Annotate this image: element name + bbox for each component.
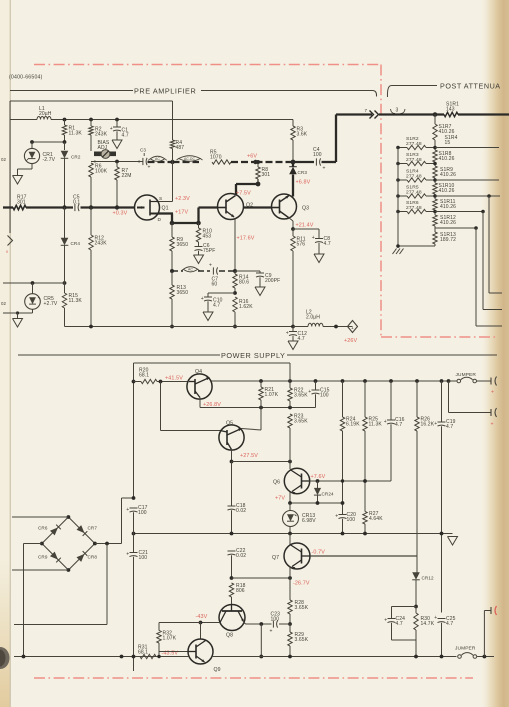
transistor Q7 mirrored	[289, 534, 291, 545]
ground below C12	[288, 341, 298, 350]
diode CR6	[50, 527, 58, 535]
diode CR5 breakdown	[32, 283, 34, 294]
svg-text:+7.6V: +7.6V	[311, 474, 326, 480]
svg-text:+21.4V: +21.4V	[296, 223, 314, 229]
ps top-left feed wire	[134, 362, 291, 364]
svg-text:S: S	[159, 196, 162, 202]
terminal 2	[490, 409, 492, 416]
svg-text:CR4: CR4	[71, 241, 81, 246]
svg-text:CR2: CR2	[71, 155, 81, 160]
svg-text:277.48: 277.48	[406, 174, 422, 180]
svg-text:+: +	[209, 263, 212, 269]
wire rail corner down to R3	[292, 120, 294, 127]
resistor R11	[292, 229, 294, 236]
input connector chevron	[8, 236, 13, 246]
svg-text:100: 100	[320, 393, 329, 399]
wire R3 to +6V node	[292, 140, 294, 160]
svg-text:+: +	[323, 166, 326, 172]
svg-text:CR24: CR24	[322, 492, 335, 497]
svg-text:410.26: 410.26	[439, 188, 455, 194]
svg-text:22M: 22M	[122, 173, 132, 179]
bridge rectifier CR6 CR7 CR8 CR9	[42, 517, 95, 570]
ladder bottom wire	[398, 245, 435, 247]
inductor L2 and +26V source	[293, 326, 308, 328]
wire CR5 row	[3, 282, 65, 284]
capacitor C25	[438, 618, 446, 620]
transistor Q5	[219, 425, 244, 450]
svg-text:JUMPER: JUMPER	[455, 646, 476, 652]
return wire from below	[106, 544, 108, 625]
svg-text:11.3K: 11.3K	[69, 298, 83, 304]
svg-text:410.26: 410.26	[439, 156, 455, 162]
svg-text:+: +	[126, 507, 129, 513]
svg-text:CR3: CR3	[298, 170, 308, 175]
svg-text:Q7: Q7	[272, 555, 279, 561]
diode CR12	[412, 572, 420, 580]
capacitor C8 branch	[293, 228, 319, 230]
resistor R14	[234, 271, 236, 274]
bridge left corner wire down	[24, 543, 42, 545]
capacitor C19	[441, 381, 443, 422]
resistor R18	[229, 583, 233, 597]
svg-text:100: 100	[347, 517, 356, 523]
resistor R25	[364, 381, 366, 417]
resistor R13	[170, 285, 174, 299]
heavy line into attenuator	[379, 113, 444, 115]
svg-text:+: +	[286, 330, 289, 336]
svg-text:6.19K: 6.19K	[346, 422, 360, 428]
resistor R26	[416, 381, 418, 417]
capacitor C20	[339, 514, 347, 516]
svg-text:Q3: Q3	[302, 206, 309, 212]
resistor R22	[289, 363, 291, 388]
svg-text:+: +	[384, 617, 387, 623]
svg-text:14.7K: 14.7K	[421, 621, 435, 627]
svg-text:3.65K: 3.65K	[294, 419, 308, 425]
node Q2 emitter R14	[233, 269, 237, 273]
resistor R12	[90, 208, 92, 236]
resistor R1	[63, 118, 67, 122]
svg-text:+: +	[201, 296, 204, 302]
svg-text:Q6: Q6	[273, 480, 280, 486]
svg-text:+6.8V: +6.8V	[296, 180, 311, 186]
svg-text:4.7: 4.7	[122, 133, 129, 139]
svg-text:0.02: 0.02	[236, 553, 246, 559]
svg-text:1: 1	[351, 325, 354, 330]
svg-text:60: 60	[212, 282, 218, 288]
diode CR3	[289, 167, 297, 175]
ground below CR5	[13, 319, 23, 328]
resistor R20	[132, 380, 136, 384]
-43V wire to R32	[159, 622, 201, 624]
svg-text:-2.7V: -2.7V	[43, 157, 56, 163]
PRE AMPLIFIER title rule	[10, 90, 133, 92]
diode CR9	[50, 552, 58, 560]
capacitor C7 in line	[212, 267, 214, 274]
red dash-dot border lower arm	[381, 336, 497, 338]
svg-text:410.26: 410.26	[440, 204, 456, 210]
resistor R23	[288, 414, 292, 428]
resistor R8	[257, 162, 259, 167]
svg-text:277.48: 277.48	[406, 190, 422, 196]
bridge ac input wires	[12, 516, 68, 518]
transistor Q6 mirrored	[289, 492, 291, 503]
svg-text:AC-DC: AC-DC	[184, 157, 196, 161]
svg-text:+: +	[491, 390, 494, 396]
svg-text:02: 02	[1, 157, 7, 162]
resistor R4	[172, 101, 174, 140]
Q4 emitter wire	[199, 398, 201, 408]
Q6 collector riser	[289, 462, 291, 470]
heavy path Q1 drain to Q2 base	[158, 212, 173, 214]
resistor R28	[288, 600, 292, 614]
svg-text:100K: 100K	[95, 169, 108, 175]
svg-text:+: +	[491, 422, 494, 428]
svg-text:-0.7V: -0.7V	[312, 550, 326, 556]
ladder row resistors S1R2-S1R6	[398, 147, 407, 149]
svg-text:Q2: Q2	[246, 203, 253, 209]
svg-text:Q5: Q5	[226, 421, 233, 427]
svg-text:CR8: CR8	[88, 555, 98, 560]
diode CR8	[77, 554, 85, 562]
resistor R27	[363, 512, 367, 525]
svg-text:C3: C3	[140, 148, 146, 153]
svg-text:189.72: 189.72	[440, 237, 456, 243]
resistor R32	[158, 623, 160, 631]
svg-text:3.65K: 3.65K	[294, 393, 308, 399]
svg-text:+26V: +26V	[344, 338, 358, 344]
resistor R16	[233, 297, 237, 312]
svg-text:4.7: 4.7	[446, 621, 453, 627]
capacitor C12	[292, 327, 294, 332]
svg-text:D: D	[158, 217, 162, 223]
svg-text:20µH: 20µH	[39, 111, 52, 117]
bottom supply rail	[14, 656, 189, 658]
svg-text:4.7: 4.7	[446, 424, 453, 430]
capacitor C22	[228, 550, 236, 552]
svg-text:3650: 3650	[177, 290, 189, 296]
Q6 base wire	[310, 480, 392, 482]
svg-text:806: 806	[236, 588, 245, 594]
svg-text:410.26: 410.26	[440, 220, 456, 226]
transistor Q2	[218, 194, 244, 220]
tap wire top	[435, 147, 499, 149]
svg-text:301: 301	[17, 200, 26, 206]
svg-text:PRE AMPLIFIER: PRE AMPLIFIER	[134, 86, 196, 95]
node dashed AC line left	[170, 269, 174, 273]
svg-text:+: +	[312, 235, 315, 241]
wire CR4 chain	[63, 281, 67, 285]
wire preamp top rail from left vertical to R4 corner	[10, 100, 173, 102]
POST ATTENUATOR bracket	[387, 86, 391, 98]
oval label AC-DC	[179, 156, 201, 162]
svg-text:POST ATTENUA: POST ATTENUA	[440, 82, 501, 91]
C24 R30 parallel box	[392, 606, 417, 608]
Q7 base wire to CR12 column	[310, 555, 417, 557]
Q2 emitter wire down	[234, 219, 236, 271]
diode CR1 breakdown	[31, 142, 33, 149]
svg-text:2.0µH: 2.0µH	[306, 315, 320, 321]
capacitor C15	[315, 381, 317, 390]
ground below C9	[255, 287, 265, 296]
ground below C10	[203, 312, 213, 321]
svg-text:+6V: +6V	[247, 154, 257, 160]
ground below CR1	[13, 176, 23, 185]
svg-text:16.2K: 16.2K	[421, 422, 435, 428]
Q4 base riser to Q5	[160, 382, 162, 431]
ground below C6	[194, 255, 204, 264]
resistor R21	[260, 381, 262, 387]
jumper riser to second terminal	[448, 381, 450, 413]
svg-text:+: +	[270, 629, 273, 635]
resistor R10	[198, 223, 200, 228]
svg-text:75PF: 75PF	[203, 248, 215, 254]
attenuator ladder vertical resistors S1R7-S1R13	[434, 115, 436, 125]
svg-text:1.62K: 1.62K	[239, 304, 253, 310]
resistor R24	[342, 381, 344, 417]
svg-text:CR12: CR12	[422, 576, 435, 581]
POWER SUPPLY title rule	[18, 354, 220, 356]
red dash-dot schematic border right	[380, 65, 382, 338]
Q7 emitter node	[289, 567, 291, 579]
Q5 collector wire to emitter rail	[242, 429, 262, 431]
diode CR24	[317, 481, 319, 488]
svg-text:453: 453	[203, 234, 212, 240]
wire CR1 row	[32, 141, 65, 143]
Q3 emitter to R11 node	[289, 218, 294, 222]
ground below C1	[112, 140, 122, 149]
wire L1 rail	[10, 119, 37, 121]
heavy CR3 branch	[292, 162, 294, 167]
diode CR4	[64, 208, 66, 239]
svg-text:1.07K: 1.07K	[265, 392, 279, 398]
ladder left vertical	[397, 148, 399, 249]
svg-text:+: +	[335, 513, 338, 519]
svg-text:277.48: 277.48	[406, 205, 422, 211]
diode CR2	[64, 142, 66, 150]
ground triangle right	[448, 537, 458, 546]
wiper wire to gate line	[91, 161, 143, 163]
svg-text:4.7: 4.7	[396, 621, 403, 627]
svg-text:410.26: 410.26	[440, 172, 456, 178]
svg-text:200PF: 200PF	[265, 278, 280, 284]
dashed signal rail through AC switch	[148, 161, 173, 163]
ps main top rail	[212, 380, 449, 382]
svg-text:4.7: 4.7	[298, 336, 305, 342]
riser to output terminal	[483, 611, 485, 657]
svg-text:3.65K: 3.65K	[295, 637, 309, 643]
svg-text:4.7: 4.7	[213, 303, 220, 309]
svg-text:3650: 3650	[177, 242, 189, 248]
node CR2 line on heavy rail	[62, 205, 66, 209]
svg-text:68.1: 68.1	[139, 373, 149, 379]
svg-text:+: +	[384, 419, 387, 425]
resistor R29	[288, 632, 292, 646]
svg-text:+: +	[434, 615, 437, 621]
ground rail mid	[134, 533, 453, 535]
svg-text:3.6K: 3.6K	[297, 132, 308, 138]
svg-text:4.7: 4.7	[324, 241, 331, 247]
red dash-dot page bottom line	[34, 677, 473, 679]
svg-text:100: 100	[271, 617, 280, 623]
svg-text:+41.5V: +41.5V	[165, 376, 183, 382]
transistor Q1 JFET	[135, 195, 160, 220]
resistor R31 in rail	[140, 654, 156, 658]
svg-text:3: 3	[396, 108, 399, 114]
svg-text:576: 576	[297, 242, 306, 248]
svg-text:Q8: Q8	[226, 633, 233, 639]
svg-text:100: 100	[313, 152, 322, 158]
+7V rail	[290, 502, 343, 504]
heavy wire Q2 to Q3	[244, 206, 273, 208]
svg-text:100: 100	[138, 510, 147, 516]
heavy line through C4 and up to arrow	[293, 161, 314, 163]
wire left vertical input	[9, 101, 11, 233]
transistor Q4	[187, 374, 212, 399]
Q1 source wire	[158, 201, 173, 203]
inductor L1	[37, 116, 51, 119]
svg-text:+27.5V: +27.5V	[240, 453, 258, 459]
resistor R7	[115, 160, 119, 164]
svg-text:277.48: 277.48	[406, 157, 422, 163]
svg-text:CR7: CR7	[88, 526, 98, 531]
ground below C8	[314, 254, 324, 263]
bridge right corner output	[95, 543, 122, 545]
heavy Q2 collector to R8	[235, 184, 237, 196]
svg-text:Q4: Q4	[195, 369, 202, 375]
svg-text:+2.3V: +2.3V	[175, 196, 190, 202]
svg-text:+17V: +17V	[175, 210, 189, 216]
capacitor C6	[195, 246, 203, 248]
svg-text:80.6: 80.6	[239, 280, 249, 286]
svg-text:02: 02	[1, 301, 7, 306]
svg-text:+17.6V: +17.6V	[237, 236, 255, 242]
wire C22 to Q7 emitter node	[232, 577, 291, 579]
svg-text:100: 100	[139, 555, 148, 561]
dashed rail to +6V node	[231, 161, 256, 163]
zener CR13	[289, 503, 291, 511]
resistor R6	[89, 163, 93, 177]
capacitor C10	[207, 293, 209, 297]
svg-text:+: +	[110, 126, 113, 132]
svg-text:Q1: Q1	[162, 206, 169, 212]
resistor R3	[291, 126, 295, 140]
node R4/rail junction	[170, 160, 174, 164]
svg-text:+0.3V: +0.3V	[113, 211, 128, 217]
svg-text:4.64K: 4.64K	[369, 516, 383, 522]
svg-text:+: +	[148, 165, 151, 171]
svg-text:15: 15	[445, 140, 451, 146]
svg-text:3.65K: 3.65K	[295, 605, 309, 611]
capacitor C18	[231, 462, 233, 507]
svg-text:+: +	[308, 389, 311, 395]
svg-text:487: 487	[176, 145, 185, 151]
capacitor C17	[130, 507, 138, 509]
svg-text:7: 7	[365, 108, 368, 113]
capacitor C9	[259, 271, 261, 273]
transistor Q8 base-down	[219, 605, 245, 631]
svg-text:243K: 243K	[95, 241, 108, 247]
svg-text:-43V: -43V	[196, 614, 208, 620]
svg-text:11.3K: 11.3K	[69, 131, 83, 137]
capacitor C21	[133, 534, 135, 553]
resistor R30	[414, 613, 418, 630]
svg-text:+2.7V: +2.7V	[44, 301, 58, 307]
svg-text:301: 301	[262, 172, 271, 178]
svg-text:143: 143	[446, 107, 455, 113]
capacitor C16	[390, 381, 392, 420]
transistor Q9	[200, 623, 202, 640]
svg-text:+: +	[434, 421, 437, 427]
power diamond 1	[348, 321, 358, 333]
chassis ground	[393, 249, 397, 255]
resistor R9	[171, 223, 173, 237]
svg-text:0.02: 0.02	[236, 508, 246, 514]
svg-text:AC: AC	[155, 157, 160, 161]
svg-text:243K: 243K	[95, 132, 108, 138]
wire to C9	[235, 270, 260, 272]
resistor S1R1 in heavy line	[444, 112, 458, 116]
node CR3 top	[291, 160, 296, 165]
oval label AC	[150, 156, 164, 161]
dashed AC feedback line with C7	[172, 270, 183, 272]
Q5 emitter down	[231, 450, 233, 462]
crossing arrow chevrons	[370, 111, 374, 119]
terminal top	[490, 378, 492, 385]
svg-text:CR9: CR9	[38, 555, 48, 560]
svg-text:+26.8V: +26.8V	[203, 402, 221, 408]
heavy input line with R17	[3, 206, 13, 208]
svg-text:+7V: +7V	[275, 496, 285, 502]
svg-text:POWER SUPPLY: POWER SUPPLY	[221, 351, 285, 360]
preamp bottom rail	[65, 326, 309, 328]
svg-text:+: +	[126, 551, 129, 557]
transistor Q3	[272, 194, 297, 219]
capacitor C1	[115, 118, 119, 122]
Q8 emitter wire with C23	[244, 622, 246, 624]
svg-text:(0400-66504): (0400-66504)	[9, 75, 43, 81]
svg-text:CR6: CR6	[38, 526, 48, 531]
diode CR7	[77, 525, 85, 533]
svg-text:4.7: 4.7	[395, 422, 402, 428]
C23 branch to rail	[260, 624, 262, 657]
resistor R2	[89, 118, 93, 122]
svg-text:0.1: 0.1	[73, 200, 80, 206]
svg-text:11.3K: 11.3K	[369, 422, 383, 428]
Q8 collector wire	[201, 622, 221, 624]
capacitor C24	[388, 618, 396, 620]
svg-text:6.98V: 6.98V	[302, 518, 316, 524]
svg-text:AC: AC	[188, 268, 193, 272]
svg-text:-26.7V: -26.7V	[293, 581, 310, 587]
tap wire 2	[435, 179, 499, 181]
svg-text:1.07K: 1.07K	[163, 636, 177, 642]
tap wires to output risers	[435, 195, 500, 197]
node +6V	[253, 160, 257, 164]
svg-text:277.48: 277.48	[406, 141, 422, 147]
red dash-dot schematic border top	[34, 64, 381, 66]
resistor R15	[64, 283, 66, 293]
svg-text:Q9: Q9	[214, 667, 221, 673]
wire C10 branch	[208, 292, 235, 294]
svg-text:68.1: 68.1	[138, 650, 148, 656]
